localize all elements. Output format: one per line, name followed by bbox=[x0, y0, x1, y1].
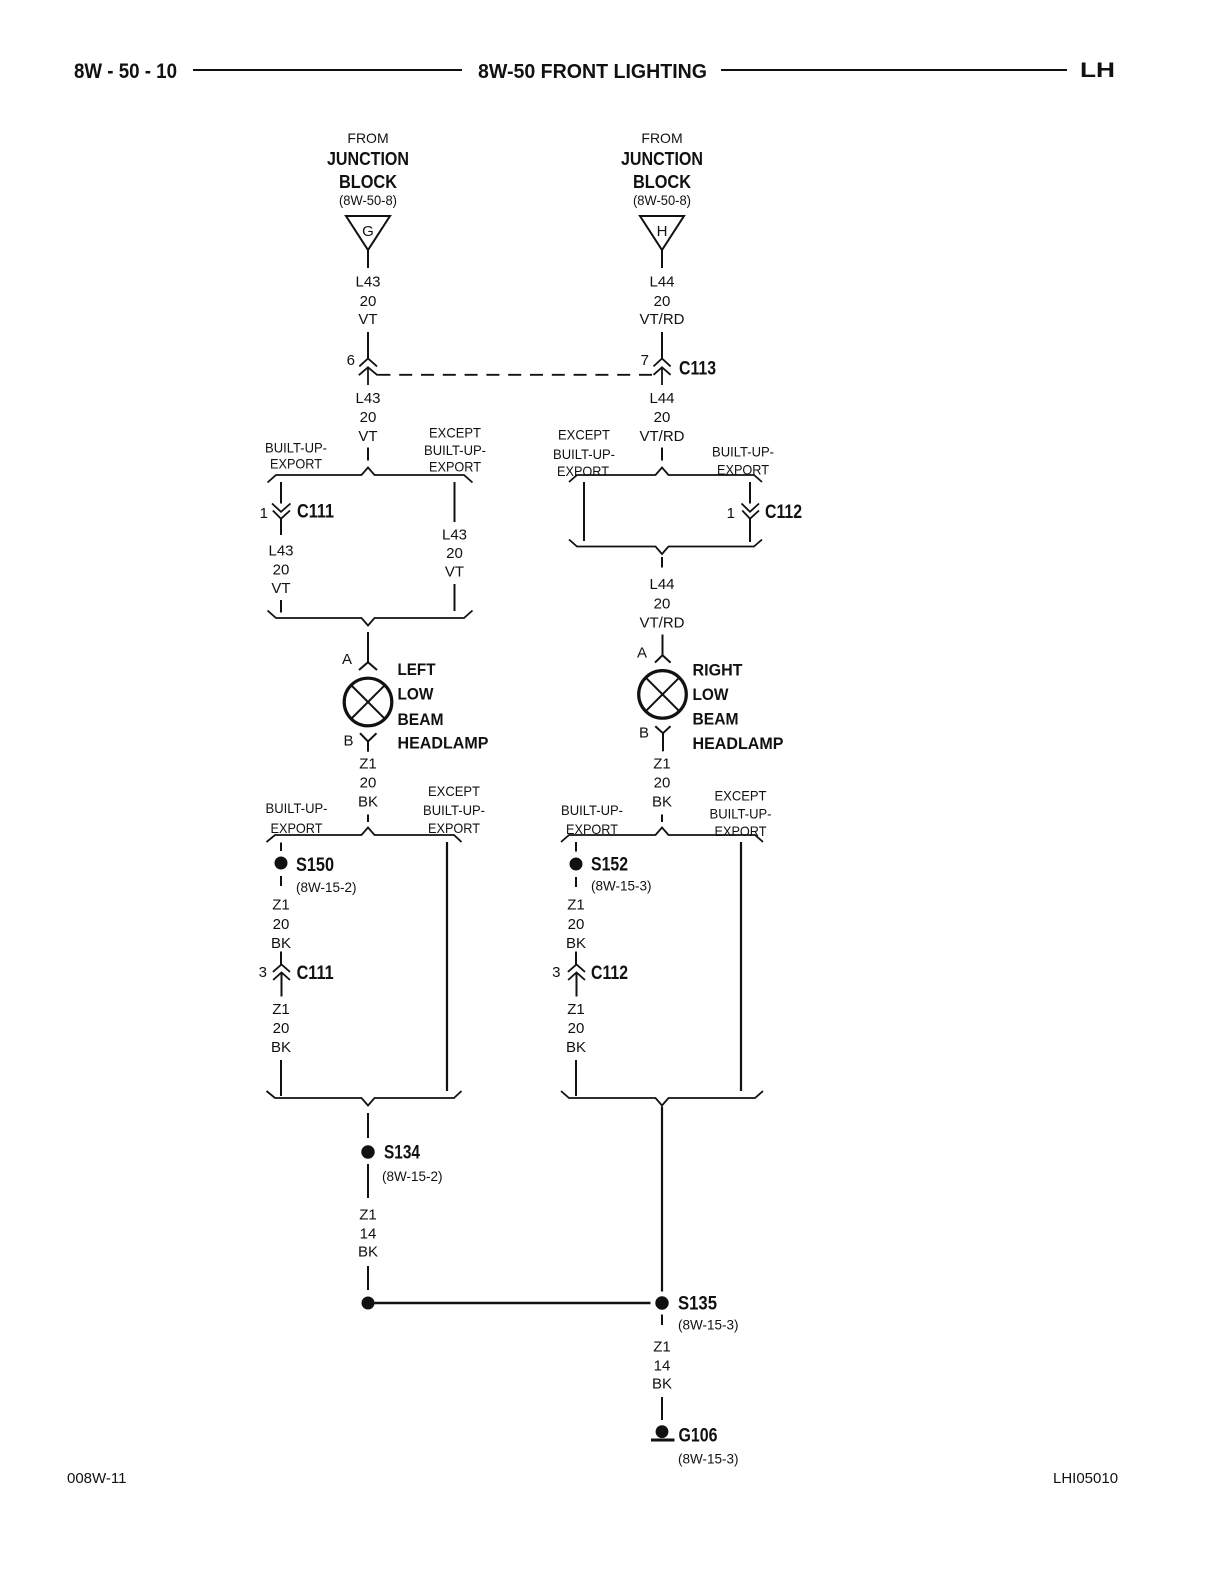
svg-text:BUILT-UP-: BUILT-UP- bbox=[423, 802, 485, 818]
svg-text:20: 20 bbox=[273, 562, 290, 579]
svg-text:BUILT-UP-: BUILT-UP- bbox=[266, 800, 328, 816]
svg-text:G106: G106 bbox=[679, 1426, 718, 1447]
svg-text:20: 20 bbox=[568, 1020, 585, 1037]
svg-text:Z1: Z1 bbox=[567, 897, 585, 914]
svg-text:8W - 50 - 10: 8W - 50 - 10 bbox=[74, 60, 177, 83]
svg-text:JUNCTION: JUNCTION bbox=[621, 149, 703, 169]
svg-text:(8W-15-2): (8W-15-2) bbox=[382, 1169, 443, 1184]
svg-text:BEAM: BEAM bbox=[398, 710, 444, 729]
svg-text:Z1: Z1 bbox=[359, 756, 377, 773]
svg-text:L43: L43 bbox=[355, 274, 380, 291]
svg-text:(8W-15-3): (8W-15-3) bbox=[678, 1452, 739, 1467]
svg-text:BUILT-UP-: BUILT-UP- bbox=[553, 446, 615, 462]
svg-text:BK: BK bbox=[358, 1244, 378, 1261]
svg-text:Z1: Z1 bbox=[272, 897, 290, 914]
svg-text:LOW: LOW bbox=[398, 685, 435, 704]
svg-text:S135: S135 bbox=[678, 1294, 717, 1315]
svg-text:A: A bbox=[342, 651, 352, 668]
svg-text:FROM: FROM bbox=[641, 130, 682, 146]
svg-text:BK: BK bbox=[652, 1376, 672, 1393]
svg-text:S152: S152 bbox=[591, 855, 628, 876]
svg-text:L43: L43 bbox=[268, 543, 293, 560]
svg-text:EXPORT: EXPORT bbox=[557, 463, 609, 479]
svg-text:6: 6 bbox=[347, 352, 355, 369]
svg-text:VT: VT bbox=[271, 580, 290, 597]
svg-text:20: 20 bbox=[568, 916, 585, 933]
svg-text:HEADLAMP: HEADLAMP bbox=[693, 734, 784, 753]
svg-text:LH: LH bbox=[1080, 59, 1115, 82]
svg-text:Z1: Z1 bbox=[653, 756, 671, 773]
svg-text:20: 20 bbox=[273, 1020, 290, 1037]
svg-text:Z1: Z1 bbox=[359, 1207, 377, 1224]
svg-text:EXCEPT: EXCEPT bbox=[428, 783, 480, 799]
svg-text:008W-11: 008W-11 bbox=[67, 1470, 126, 1487]
svg-text:Z1: Z1 bbox=[272, 1001, 290, 1018]
svg-text:20: 20 bbox=[654, 775, 671, 792]
svg-text:BUILT-UP-: BUILT-UP- bbox=[424, 442, 486, 458]
svg-text:BK: BK bbox=[652, 794, 672, 811]
svg-text:(8W-15-3): (8W-15-3) bbox=[678, 1318, 739, 1333]
svg-text:FROM: FROM bbox=[347, 130, 388, 146]
svg-text:20: 20 bbox=[654, 596, 671, 613]
svg-text:S134: S134 bbox=[384, 1143, 420, 1164]
svg-text:BUILT-UP-: BUILT-UP- bbox=[712, 443, 774, 459]
svg-text:BLOCK: BLOCK bbox=[339, 172, 397, 192]
svg-text:BK: BK bbox=[566, 1039, 586, 1056]
svg-text:20: 20 bbox=[446, 545, 463, 562]
svg-text:BLOCK: BLOCK bbox=[633, 172, 691, 192]
svg-text:8W-50 FRONT LIGHTING: 8W-50 FRONT LIGHTING bbox=[478, 61, 707, 83]
svg-text:VT/RD: VT/RD bbox=[640, 311, 685, 328]
svg-text:BUILT-UP-: BUILT-UP- bbox=[561, 802, 623, 818]
svg-text:C113: C113 bbox=[679, 359, 716, 380]
svg-text:20: 20 bbox=[654, 293, 671, 310]
svg-text:BK: BK bbox=[566, 935, 586, 952]
svg-text:L44: L44 bbox=[649, 576, 674, 593]
svg-text:L44: L44 bbox=[649, 274, 674, 291]
svg-text:14: 14 bbox=[654, 1358, 671, 1375]
svg-text:LEFT: LEFT bbox=[398, 660, 437, 679]
svg-text:3: 3 bbox=[552, 964, 560, 981]
svg-text:(8W-15-3): (8W-15-3) bbox=[591, 879, 652, 894]
svg-text:L44: L44 bbox=[649, 390, 674, 407]
svg-text:EXCEPT: EXCEPT bbox=[429, 425, 481, 441]
svg-text:BK: BK bbox=[271, 1039, 291, 1056]
svg-text:BEAM: BEAM bbox=[693, 710, 739, 729]
svg-text:G: G bbox=[362, 223, 374, 240]
svg-text:BK: BK bbox=[358, 794, 378, 811]
svg-text:3: 3 bbox=[259, 964, 267, 981]
svg-text:20: 20 bbox=[654, 409, 671, 426]
svg-text:(8W-50-8): (8W-50-8) bbox=[633, 192, 691, 208]
svg-text:EXPORT: EXPORT bbox=[428, 820, 480, 836]
svg-text:1: 1 bbox=[260, 505, 268, 522]
svg-text:EXPORT: EXPORT bbox=[715, 823, 767, 839]
svg-text:EXPORT: EXPORT bbox=[271, 820, 323, 836]
svg-text:20: 20 bbox=[360, 775, 377, 792]
svg-text:LHI05010: LHI05010 bbox=[1053, 1470, 1118, 1487]
svg-text:20: 20 bbox=[360, 293, 377, 310]
svg-text:HEADLAMP: HEADLAMP bbox=[398, 734, 489, 753]
svg-text:B: B bbox=[639, 725, 649, 742]
svg-text:EXPORT: EXPORT bbox=[270, 456, 322, 472]
svg-text:VT/RD: VT/RD bbox=[640, 615, 685, 632]
svg-text:7: 7 bbox=[641, 352, 649, 369]
svg-text:VT/RD: VT/RD bbox=[640, 428, 685, 445]
svg-text:EXCEPT: EXCEPT bbox=[558, 427, 610, 443]
svg-text:BUILT-UP-: BUILT-UP- bbox=[265, 440, 327, 456]
svg-text:VT: VT bbox=[358, 311, 377, 328]
svg-text:1: 1 bbox=[727, 505, 735, 522]
svg-text:C112: C112 bbox=[765, 502, 802, 523]
svg-text:Z1: Z1 bbox=[653, 1339, 671, 1356]
svg-text:H: H bbox=[657, 223, 668, 240]
svg-text:LOW: LOW bbox=[693, 685, 730, 704]
svg-text:20: 20 bbox=[273, 916, 290, 933]
svg-text:VT: VT bbox=[445, 564, 464, 581]
svg-text:(8W-15-2): (8W-15-2) bbox=[296, 880, 357, 895]
svg-text:14: 14 bbox=[360, 1226, 377, 1243]
svg-text:L43: L43 bbox=[442, 527, 467, 544]
svg-text:VT: VT bbox=[358, 428, 377, 445]
svg-text:Z1: Z1 bbox=[567, 1001, 585, 1018]
svg-text:EXPORT: EXPORT bbox=[429, 458, 481, 474]
svg-text:20: 20 bbox=[360, 409, 377, 426]
svg-text:S150: S150 bbox=[296, 855, 334, 876]
svg-text:A: A bbox=[637, 645, 647, 662]
svg-text:C111: C111 bbox=[297, 502, 334, 523]
svg-text:(8W-50-8): (8W-50-8) bbox=[339, 192, 397, 208]
svg-text:C111: C111 bbox=[297, 963, 334, 984]
svg-text:BK: BK bbox=[271, 935, 291, 952]
svg-text:L43: L43 bbox=[355, 390, 380, 407]
svg-text:JUNCTION: JUNCTION bbox=[327, 149, 409, 169]
svg-text:BUILT-UP-: BUILT-UP- bbox=[710, 806, 772, 822]
svg-text:EXCEPT: EXCEPT bbox=[715, 788, 767, 804]
svg-text:B: B bbox=[343, 733, 353, 750]
svg-text:C112: C112 bbox=[591, 963, 628, 984]
svg-text:RIGHT: RIGHT bbox=[693, 661, 744, 680]
